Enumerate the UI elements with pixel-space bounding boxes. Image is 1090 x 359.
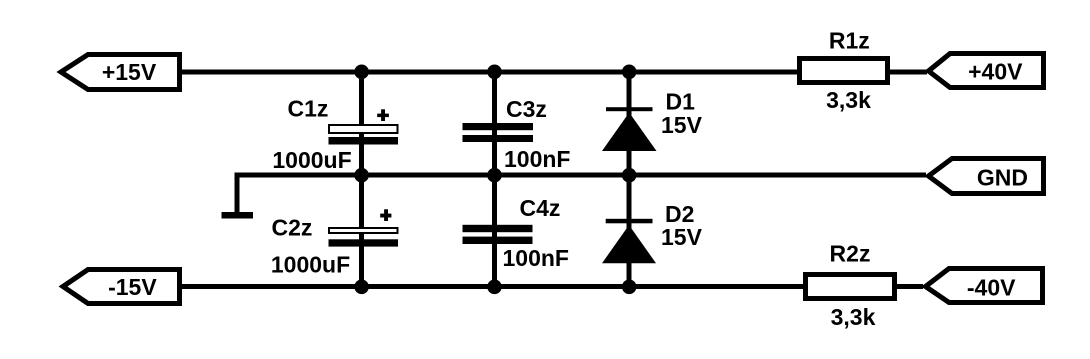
junction dot top rail at C1z [354, 65, 369, 80]
zener diode D2 [602, 219, 656, 263]
label R1z [829, 27, 870, 53]
svg-text:3,3k: 3,3k [831, 304, 876, 330]
resistor R2z [806, 275, 895, 299]
junction dot bottom rail at C2z [354, 280, 369, 295]
label 3,3k of R1z [826, 87, 871, 113]
label 1000uF of C2z [271, 252, 350, 278]
svg-text:15V: 15V [661, 112, 703, 138]
svg-text:15V: 15V [661, 224, 703, 250]
svg-text:-40V: -40V [967, 274, 1016, 300]
wire C1z/C2z column vertical [359, 72, 364, 287]
wire ground stub vertical [235, 173, 240, 212]
svg-text:1000uF: 1000uF [272, 147, 351, 173]
label 100nF of C4z [503, 245, 569, 271]
svg-text:-15V: -15V [108, 274, 157, 300]
port tag +40V [929, 54, 1044, 88]
svg-text:R2z: R2z [830, 241, 871, 267]
junction dot top rail at D1 [622, 65, 637, 80]
capacitor C3z [463, 123, 534, 142]
label D2 [665, 201, 694, 227]
label 1000uF of C1z [272, 147, 351, 173]
junction dot GND rail at C4z [487, 168, 502, 183]
label C3z [506, 96, 547, 122]
svg-text:R1z: R1z [829, 27, 870, 53]
svg-text:+15V: +15V [102, 59, 157, 85]
wire D1/D2 column vertical [627, 72, 632, 287]
wire GND rail middle [235, 173, 927, 178]
svg-text:1000uF: 1000uF [271, 252, 350, 278]
junction dot bottom rail at D2 [622, 280, 637, 295]
capacitor C1z [329, 125, 399, 145]
svg-text:GND: GND [977, 164, 1028, 190]
port tag GND [929, 159, 1044, 194]
wire R2z to -40V tag [895, 284, 923, 289]
label 15V of D2 [661, 224, 703, 250]
svg-text:C4z: C4z [520, 195, 561, 221]
junction dot top rail at C3z [487, 65, 502, 80]
svg-text:D1: D1 [666, 89, 696, 115]
label D1 [666, 89, 696, 115]
label C4z [520, 195, 561, 221]
label 3,3k of R2z [831, 304, 876, 330]
junction dot bottom rail at C4z [487, 280, 502, 295]
wire +15V rail from tag to R1z [178, 70, 800, 75]
zener diode D1 [602, 107, 657, 151]
label C2z [272, 215, 313, 241]
svg-text:C2z: C2z [272, 215, 313, 241]
junction dot GND rail at D2 [622, 168, 637, 183]
resistor R1z [800, 59, 888, 83]
port tag -15V [63, 270, 180, 304]
wire R1z to +40V tag [888, 70, 927, 75]
capacitor C4z [463, 225, 533, 244]
svg-text:100nF: 100nF [503, 245, 569, 271]
junction dot GND rail at C2z [354, 168, 369, 183]
label C1z [288, 96, 329, 122]
wire C3z/C4z column vertical [492, 72, 497, 287]
label 15V of D1 [661, 112, 703, 138]
wire -15V rail from tag to R2z [178, 284, 806, 289]
capacitor C2z [329, 228, 399, 247]
ground [222, 212, 254, 219]
port tag +15V [61, 55, 180, 90]
label R2z [830, 241, 871, 267]
svg-text:3,3k: 3,3k [826, 87, 871, 113]
label 100nF of C3z [504, 146, 570, 172]
port tag -40V [926, 269, 1043, 303]
capacitor C1z plus sign [377, 109, 389, 121]
svg-text:C3z: C3z [506, 96, 547, 122]
svg-text:100nF: 100nF [504, 146, 570, 172]
svg-text:C1z: C1z [288, 96, 329, 122]
capacitor C2z plus sign [380, 209, 391, 221]
svg-text:+40V: +40V [968, 59, 1023, 85]
